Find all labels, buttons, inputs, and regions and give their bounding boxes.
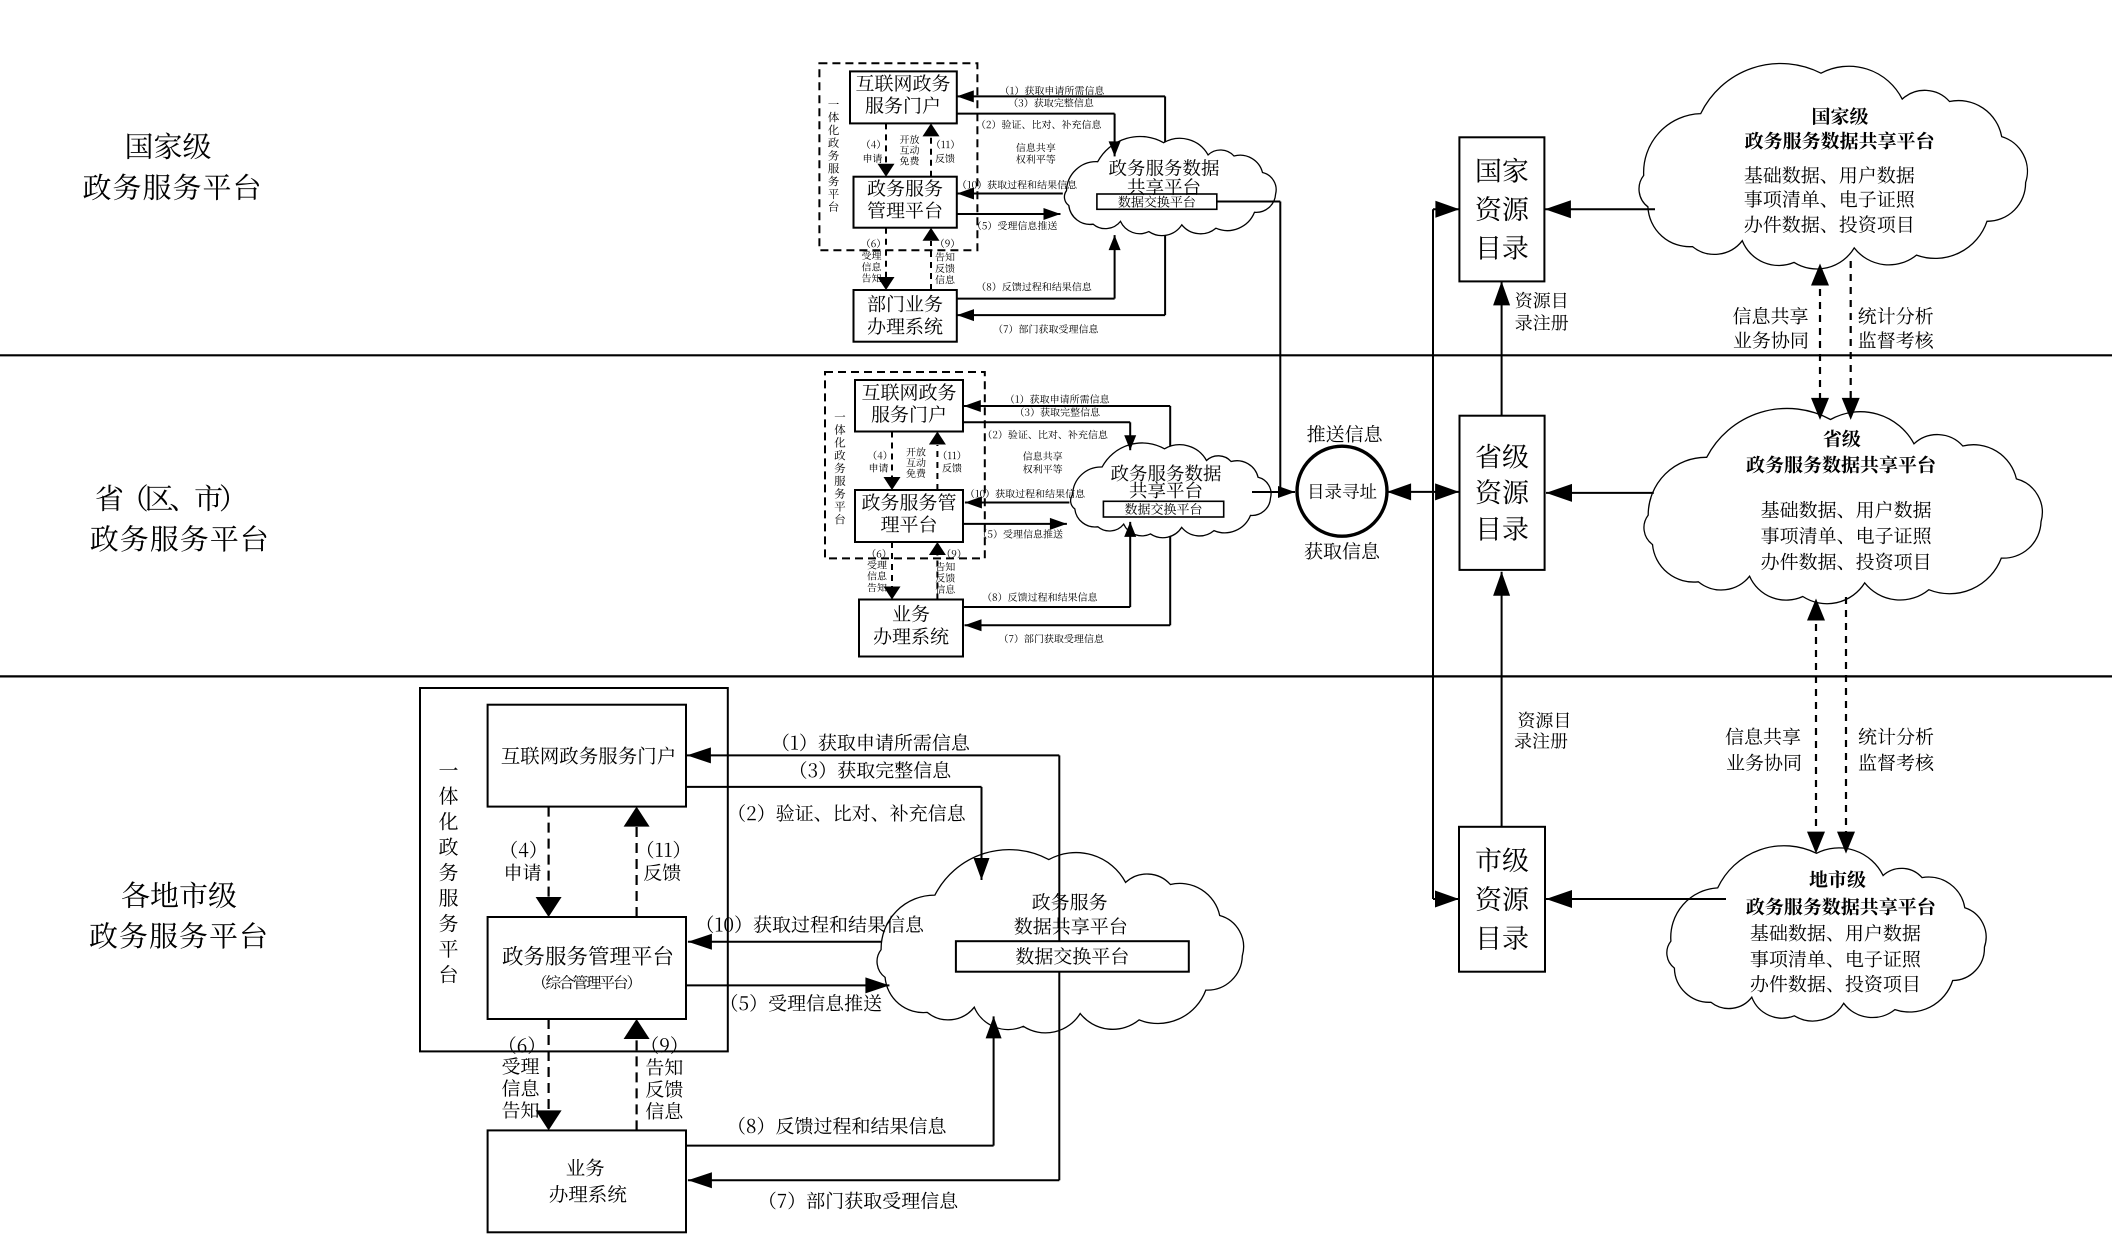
label (11) 反馈 national bbox=[935, 140, 954, 163]
box 业务办理系统 city bbox=[488, 1130, 686, 1232]
circle 目录寻址 bbox=[1297, 446, 1387, 536]
wire vertical x=1170 province (under cloud) bbox=[1169, 406, 1171, 625]
label (1) 获取申请所需信息 national bbox=[1006, 86, 1104, 95]
text 业务办理系统 province bbox=[874, 605, 949, 645]
text 市级资源目录 bbox=[1476, 847, 1528, 950]
label (10) 获取过程和结果信息 national bbox=[963, 180, 1076, 189]
text province cloud body bbox=[1761, 501, 1931, 571]
text 国家级 cloud title bbox=[1745, 107, 1933, 149]
wire (5) national: mgmt to cloud bbox=[957, 213, 1061, 215]
wire: double arrow 目录寻址 to 省级资源目录 bbox=[1387, 491, 1459, 493]
vertical label 一体化政务服务平台 national bbox=[828, 103, 839, 212]
box 数据交换平台 national bbox=[1097, 194, 1217, 209]
label (10) 获取过程和结果信息 city bbox=[708, 915, 923, 933]
wire: 资源目录注册 city catalog to province catalog bbox=[1501, 572, 1503, 827]
label 信息共享业务协同 upper bbox=[1733, 307, 1808, 349]
wire (2) province: portal to cloud elbow bbox=[963, 421, 1130, 423]
label (5) 受理信息推送 city bbox=[732, 994, 881, 1012]
label (6) 受理信息告知 city bbox=[502, 1036, 539, 1118]
dashed 信息共享业务协同 province-city (both arrows) bbox=[1815, 611, 1817, 841]
dashed arrow (6) national 受理信息告知 bbox=[885, 228, 887, 277]
label (3) 获取完整信息 province bbox=[1021, 407, 1100, 416]
box 国家资源目录 bbox=[1459, 137, 1544, 281]
wire (8) city elbow bbox=[686, 1145, 994, 1147]
label (8) 反馈过程和结果信息 city bbox=[739, 1117, 945, 1135]
dashed arrow (11) city bbox=[635, 827, 637, 917]
box 业务办理系统 province bbox=[859, 600, 963, 657]
label (10) 获取过程和结果信息 province bbox=[971, 489, 1084, 498]
label (4) 申请 national bbox=[864, 140, 882, 163]
dashed arrow (9) national 告知反馈信息 bbox=[930, 241, 932, 290]
dashed frame 一体化政务服务平台 province bbox=[825, 372, 985, 558]
label 省（区、市）政务服务平台 (tier2 row) bbox=[91, 484, 267, 551]
label (6) 受理信息告知 province bbox=[867, 549, 886, 592]
label (5) 受理信息推送 province bbox=[984, 529, 1063, 538]
cloud: 省级政务服务数据共享平台 (right) bbox=[1644, 408, 2042, 603]
box 政务服务管理平台 province bbox=[855, 490, 963, 542]
box 数据交换平台 province bbox=[1103, 501, 1223, 517]
label (9) 告知反馈信息 province bbox=[936, 549, 961, 594]
label (6) 受理信息告知 national bbox=[862, 239, 881, 283]
wire: national 数据交换平台 right to directory-addressing vertical bbox=[1217, 201, 1281, 203]
dashed arrow (11) province bbox=[936, 445, 938, 490]
box 互联网政务服务门户 national bbox=[850, 71, 957, 123]
wire (8) national: dept to cloud elbow bbox=[957, 298, 1115, 300]
text 数据交换平台 national bbox=[1118, 196, 1194, 208]
dashed arrow (6) province bbox=[891, 542, 893, 587]
text 互联网政务服务门户 national bbox=[856, 74, 950, 114]
text 政务服务数据共享平台 province center cloud bbox=[1111, 464, 1221, 498]
label (5) 受理信息推送 national bbox=[978, 221, 1057, 230]
label (8) 反馈过程和结果信息 national bbox=[983, 282, 1092, 291]
text 政务服务管理平台 national bbox=[868, 179, 943, 219]
label 统计分析监督考核 upper bbox=[1858, 307, 1933, 349]
dashed frame 一体化政务服务平台 national bbox=[819, 63, 977, 250]
wire (7)+(1) city vertical x=1059 and (7) horizontal bbox=[1058, 755, 1060, 1180]
text 国家资源目录 bbox=[1476, 158, 1527, 260]
wire (10) city bbox=[688, 941, 882, 943]
text city cloud body bbox=[1751, 924, 1921, 993]
label 国家级政务服务平台 (tier1 row) bbox=[83, 132, 259, 200]
wire (1) city: cloud to portal bbox=[687, 754, 1059, 756]
wire vertical x=1165 national (under cloud) bbox=[1164, 96, 1166, 315]
label 各地市级政务服务平台 (tier3 row) bbox=[90, 881, 266, 948]
box 互联网政务服务门户 province bbox=[855, 380, 963, 432]
text 业务办理系统 city bbox=[550, 1159, 627, 1203]
box 政务服务管理平台 city bbox=[488, 917, 686, 1019]
dashed 统计分析监督考核 province-city (down arrow) bbox=[1845, 597, 1847, 841]
box 市级资源目录 bbox=[1459, 827, 1545, 972]
label 信息共享 权利平等 province bbox=[1023, 451, 1062, 473]
label (7) 部门获取受理信息 national bbox=[1000, 324, 1098, 333]
wire: 资源目录注册 province catalog to national catalog bbox=[1501, 281, 1503, 415]
label (8) 反馈过程和结果信息 province bbox=[989, 592, 1098, 601]
dashed arrow (4) province bbox=[891, 432, 893, 478]
label (3) 获取完整信息 city bbox=[801, 761, 950, 779]
dashed arrow (9) city bbox=[635, 1039, 637, 1130]
label 资源目录注册 national bbox=[1515, 292, 1568, 331]
cloud: 地市级政务服务数据共享平台 (right) bbox=[1667, 846, 1986, 1021]
dashed arrow (4) national 申请 bbox=[885, 123, 887, 164]
text 部门业务办理系统 national bbox=[868, 295, 943, 335]
text 政务服务数据共享平台 city center cloud bbox=[1014, 893, 1126, 935]
text 政务服务管理平台 province bbox=[862, 493, 956, 533]
label 信息共享业务协同 lower bbox=[1726, 727, 1801, 771]
label (1) 获取申请所需信息 province bbox=[1011, 394, 1109, 403]
label (11) 反馈 province bbox=[942, 451, 961, 473]
label (2) 验证、比对、补充信息 national bbox=[982, 120, 1101, 129]
wire: province cloud right to 目录寻址 circle bbox=[1252, 491, 1295, 493]
box 政务服务管理平台 national bbox=[854, 177, 957, 228]
dashed 统计分析监督考核 national-province (down arrow) bbox=[1850, 261, 1852, 407]
label (2) 验证、比对、补充信息 city bbox=[739, 804, 964, 822]
divider line tier2/tier3 bbox=[0, 675, 2112, 677]
text 数据交换平台 city bbox=[1016, 947, 1128, 965]
label (9) 告知反馈信息 national bbox=[935, 239, 954, 284]
text 推送信息 bbox=[1307, 425, 1381, 443]
divider line tier1/tier2 bbox=[0, 354, 2112, 356]
label (9) 告知反馈信息 city bbox=[646, 1036, 683, 1119]
wire: long vertical x=1433 with elbows into 国家资源目录 and 市级资源目录 bbox=[1432, 209, 1434, 899]
label (7) 部门获取受理信息 city bbox=[770, 1192, 957, 1210]
text 互联网政务服务门户 province bbox=[862, 383, 956, 423]
text 互联网政务服务门户 city bbox=[502, 747, 675, 765]
wire (10) province bbox=[965, 502, 1070, 504]
wire (2) city: portal to cloud elbow bbox=[686, 786, 982, 788]
label (2) 验证、比对、补充信息 province bbox=[989, 430, 1108, 439]
dashed arrow (9) province bbox=[936, 555, 938, 600]
label (3) 获取完整信息 national bbox=[1015, 98, 1094, 107]
wire: 国家级 cloud to 国家资源目录 bbox=[1545, 208, 1655, 210]
label 统计分析监督考核 lower bbox=[1859, 728, 1934, 772]
box 互联网政务服务门户 city bbox=[488, 705, 686, 807]
text 数据交换平台 province bbox=[1125, 503, 1201, 515]
wire (10) national: cloud to mgmt bbox=[957, 193, 1063, 195]
solid frame 一体化政务服务平台 city bbox=[420, 688, 728, 1051]
box 部门业务办理系统 national bbox=[854, 290, 957, 342]
dashed 信息共享业务协同 national-province (both arrows) bbox=[1819, 276, 1821, 407]
label (7) 部门获取受理信息 province bbox=[1005, 634, 1103, 643]
wire (8) province elbow bbox=[963, 606, 1130, 608]
wire (5) city bbox=[686, 984, 889, 986]
box 省级资源目录 bbox=[1460, 416, 1545, 570]
box 数据交换平台 city bbox=[956, 941, 1189, 972]
wire (1) province: cloud to portal bbox=[964, 405, 1170, 407]
wire (1) national: cloud to portal bbox=[957, 95, 1165, 97]
label 开放互动免费 province bbox=[906, 447, 925, 478]
wire: 省级 cloud to 省级资源目录 bbox=[1546, 492, 1654, 494]
text 政务服务管理平台（综合管理平台） city bbox=[503, 946, 672, 990]
label 信息共享 权利平等 national bbox=[1016, 143, 1055, 164]
wire (2) national: portal to cloud elbow bbox=[957, 113, 1115, 115]
text 获取信息 bbox=[1305, 542, 1379, 560]
text 省级资源目录 bbox=[1476, 444, 1528, 541]
label 资源目录注册 city bbox=[1515, 712, 1569, 749]
wire: 地市级 cloud to 市级资源目录 bbox=[1546, 898, 1726, 900]
wire (7) national horizontal bbox=[957, 314, 1165, 316]
dashed arrow (11) national 反馈 bbox=[930, 137, 932, 177]
dashed arrow (6) city bbox=[547, 1019, 549, 1110]
text 政务服务数据共享平台 national center cloud bbox=[1109, 159, 1219, 195]
text national cloud body bbox=[1745, 166, 1915, 233]
label (4) 申请 city bbox=[506, 841, 541, 881]
vertical label 一体化政务服务平台 city bbox=[439, 767, 458, 983]
cloud: province-tier 政务服务数据共享平台 (center) bbox=[1071, 443, 1271, 538]
label (4) 申请 province bbox=[870, 451, 888, 473]
cloud: national-tier 政务服务数据共享平台 (center) bbox=[1064, 136, 1276, 235]
label (1) 获取申请所需信息 city bbox=[783, 733, 969, 751]
dashed arrow (4) city bbox=[547, 807, 549, 897]
label (11) 反馈 city bbox=[644, 841, 681, 881]
text 地市级 cloud title bbox=[1746, 870, 1934, 915]
wire (5) province bbox=[963, 523, 1067, 525]
wire (7) province horizontal bbox=[965, 624, 1171, 626]
label 开放互动免费 national bbox=[900, 135, 919, 166]
cloud: 国家级政务服务数据共享平台 (right) bbox=[1639, 63, 2027, 268]
text 目录寻址 bbox=[1310, 483, 1376, 499]
vertical label 一体化政务服务平台 province bbox=[834, 415, 845, 524]
text 省级 cloud title bbox=[1746, 430, 1934, 474]
cloud: city-tier 政务服务数据共享平台 (center) bbox=[877, 850, 1244, 1033]
